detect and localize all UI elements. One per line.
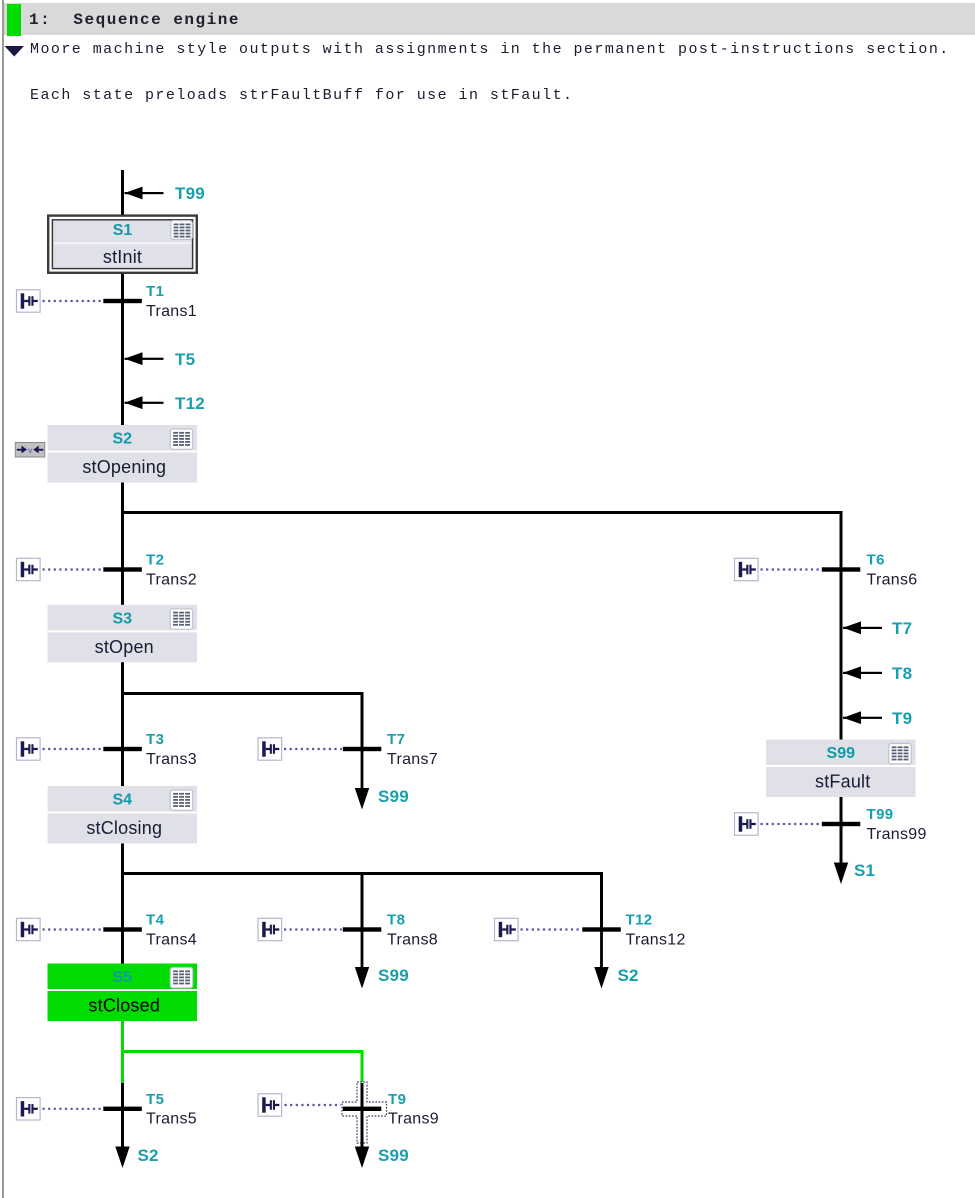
svg-text:stOpening: stOpening [82,457,166,477]
svg-text:Trans99: Trans99 [867,826,927,843]
svg-text:stClosing: stClosing [86,818,162,838]
svg-text:v: v [28,445,33,455]
svg-text:S2: S2 [618,966,639,985]
svg-text:Trans3: Trans3 [146,751,197,768]
svg-text:S99: S99 [827,745,856,762]
svg-text:S5: S5 [112,969,132,986]
svg-text:S99: S99 [378,1146,409,1165]
svg-text:Trans12: Trans12 [626,931,686,948]
svg-text:T2: T2 [146,552,164,569]
svg-text:S99: S99 [378,966,409,985]
svg-text:S2: S2 [112,431,132,448]
svg-text:T8: T8 [387,912,405,929]
svg-text:S2: S2 [138,1146,159,1165]
svg-text:S1: S1 [113,222,133,239]
svg-text:stOpen: stOpen [95,637,154,657]
svg-text:T3: T3 [146,731,164,748]
svg-text:T4: T4 [146,912,165,929]
svg-text:Trans6: Trans6 [867,571,918,588]
svg-text:Trans2: Trans2 [146,571,197,588]
svg-text:T7: T7 [892,619,912,638]
svg-text:stFault: stFault [815,772,870,792]
svg-text:S3: S3 [112,610,132,627]
svg-text:T8: T8 [892,664,912,683]
svg-text:stInit: stInit [103,247,142,267]
svg-text:stClosed: stClosed [88,996,160,1016]
svg-text:T9: T9 [388,1091,406,1108]
svg-text:Trans8: Trans8 [387,931,438,948]
svg-text:S4: S4 [112,792,132,809]
svg-text:Trans5: Trans5 [146,1111,197,1128]
svg-text:T99: T99 [867,806,894,823]
svg-text:T5: T5 [175,350,195,369]
svg-text:Trans7: Trans7 [387,751,438,768]
svg-text:T7: T7 [387,731,405,748]
svg-text:T99: T99 [175,184,205,203]
svg-text:T5: T5 [146,1091,164,1108]
svg-text:T1: T1 [146,283,164,300]
svg-text:Trans1: Trans1 [146,303,197,320]
svg-text:S99: S99 [378,787,409,806]
svg-text:Trans9: Trans9 [388,1111,439,1128]
svg-text:T6: T6 [867,552,885,569]
svg-text:T12: T12 [626,912,653,929]
svg-text:T9: T9 [892,709,912,728]
svg-text:S1: S1 [854,861,875,880]
svg-text:T12: T12 [175,394,205,413]
svg-text:Trans4: Trans4 [146,931,197,948]
